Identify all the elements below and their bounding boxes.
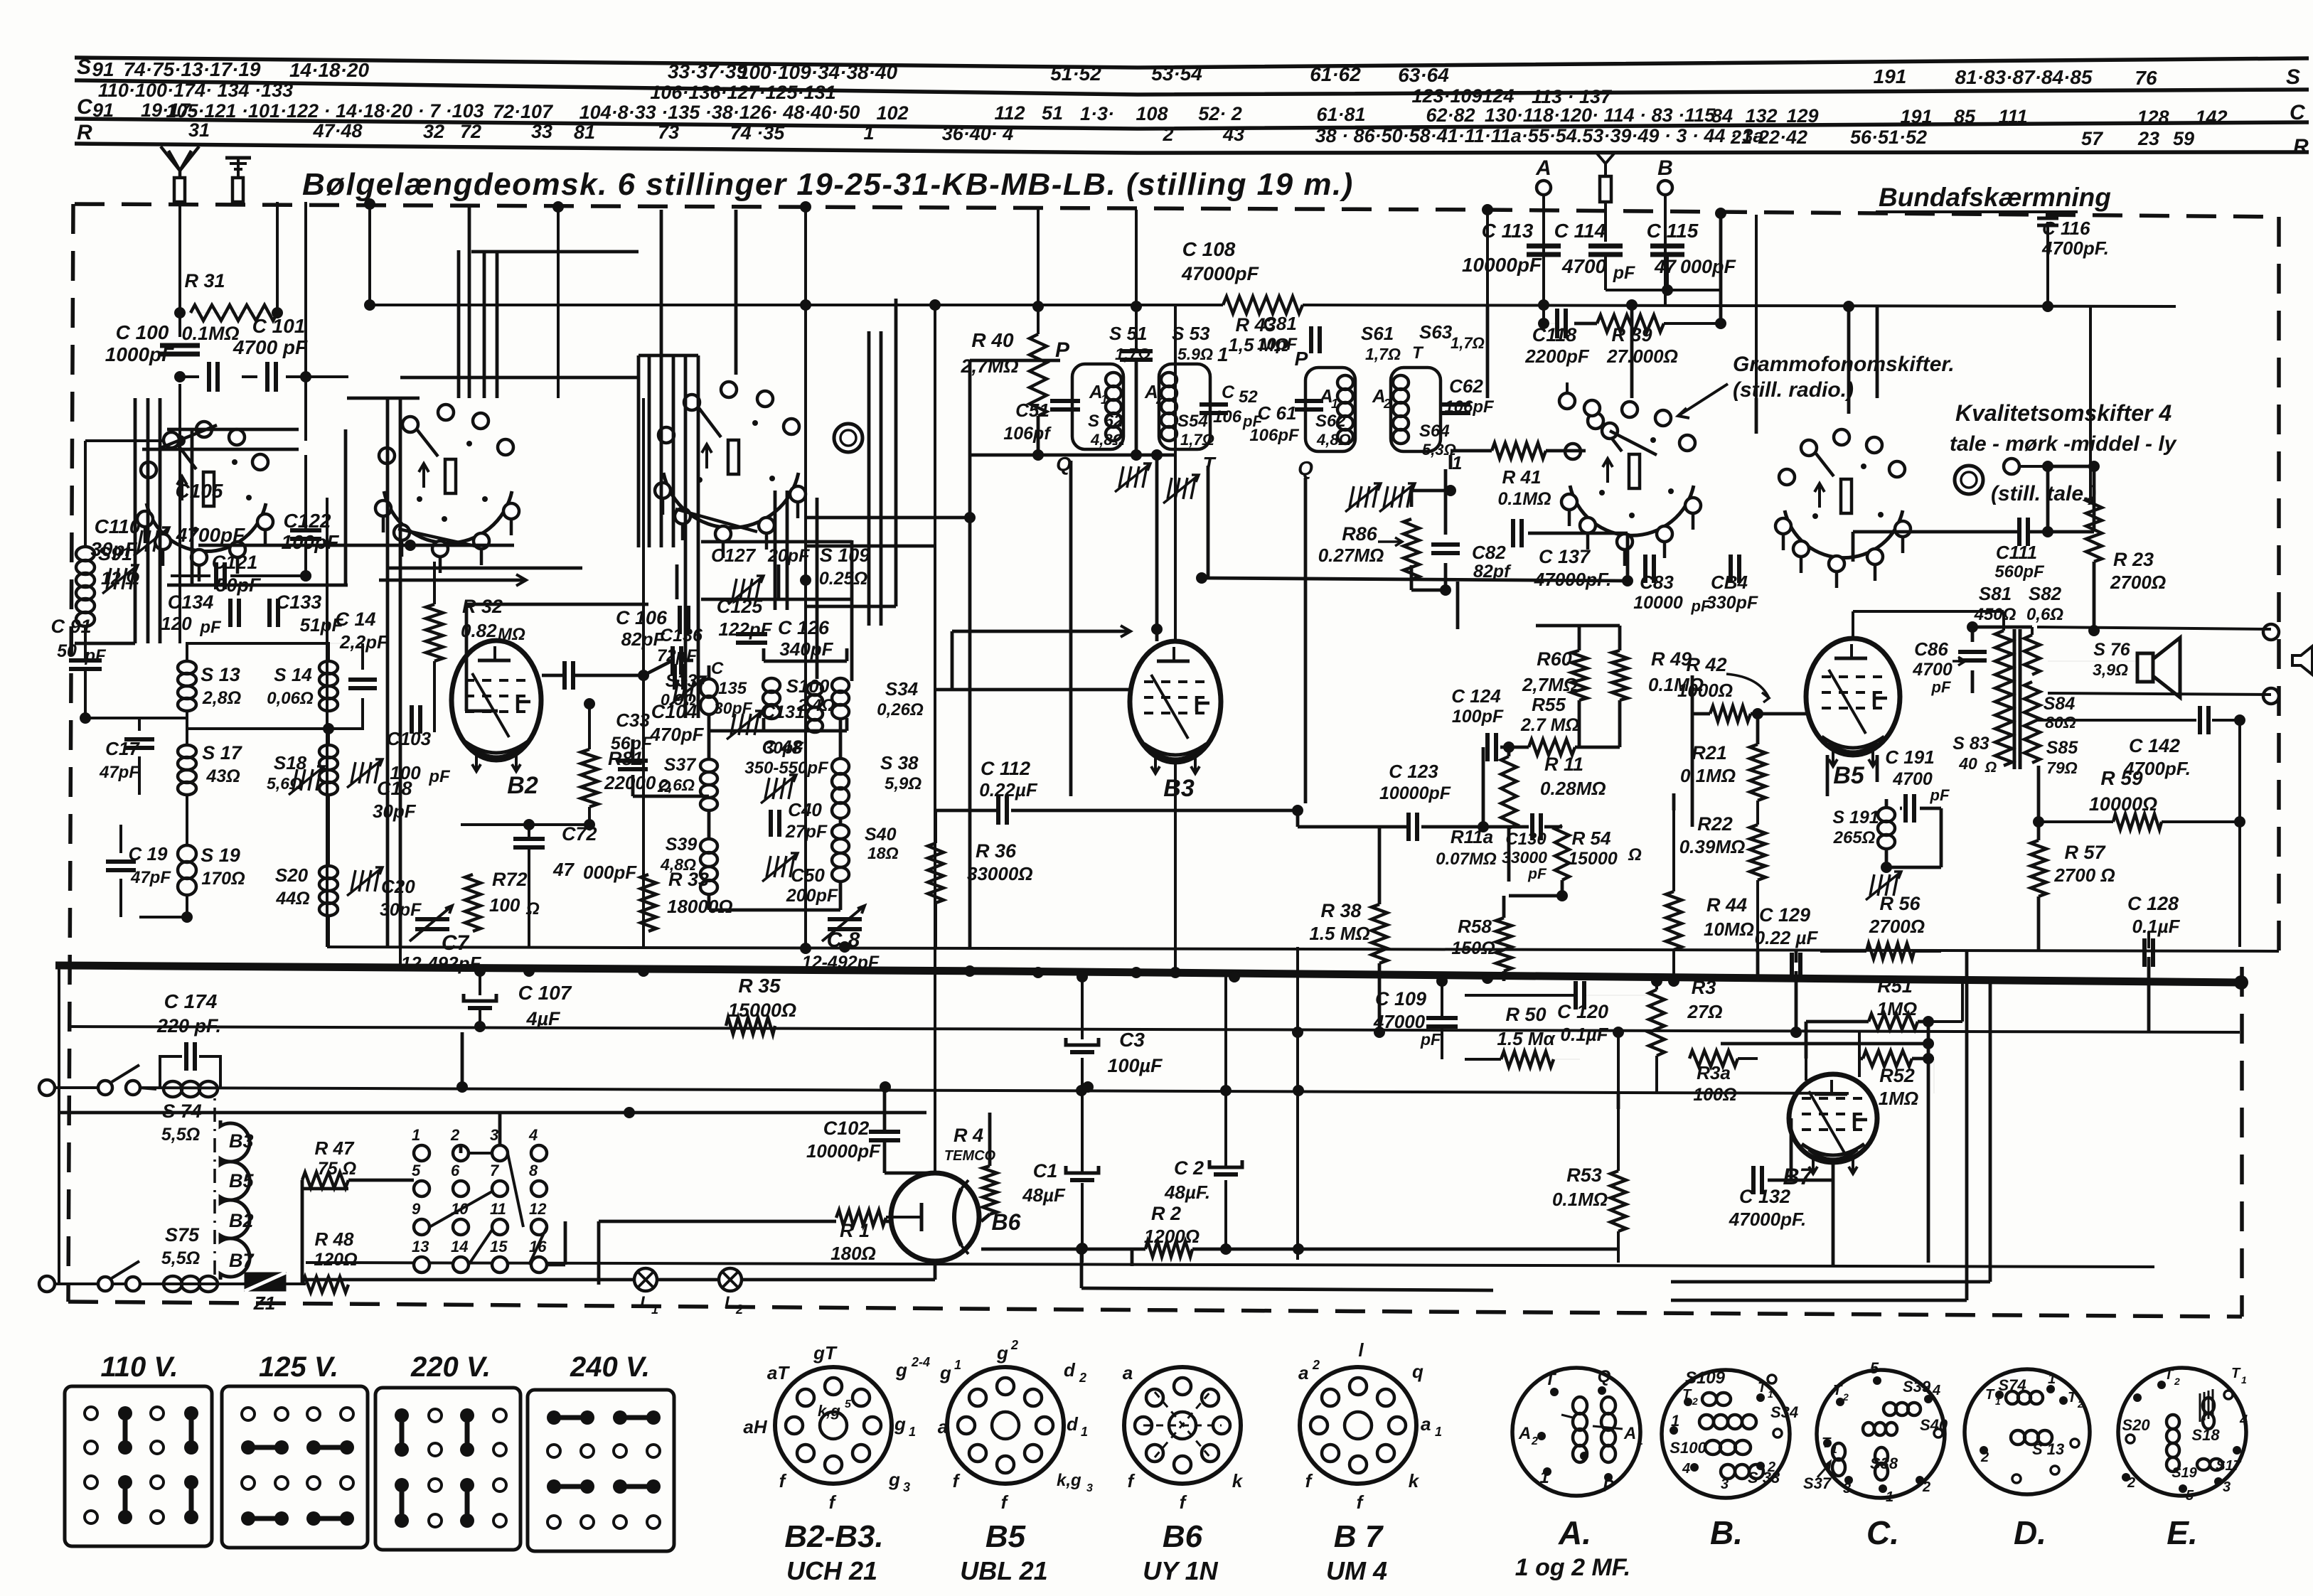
output terminal 2 [2263,688,2279,704]
svg-text:T: T [1545,1370,1557,1389]
arrow R86 [1378,540,1402,543]
svg-text:000pF: 000pF [583,862,637,883]
svg-text:B2: B2 [507,772,538,799]
wire C72 [528,825,530,837]
svg-text:S 13: S 13 [2032,1440,2064,1458]
svg-text:1: 1 [1452,452,1462,473]
wire R56 line [1820,950,1866,953]
svg-text:10pF: 10pF [1257,335,1298,354]
junction dots mid [405,540,416,551]
svg-text:0.39MΩ: 0.39MΩ [1679,836,1746,857]
svg-text:27pF: 27pF [785,822,828,842]
ecap C1 [1066,1166,1099,1173]
svg-text:240 V.: 240 V. [570,1351,650,1383]
svg-text:72: 72 [460,121,481,142]
svg-text:C72: C72 [562,823,597,845]
svg-text:R 40: R 40 [971,329,1014,351]
svg-text:125 V.: 125 V. [259,1351,338,1383]
svg-text:A: A [1518,1424,1531,1443]
svg-text:1: 1 [1832,1444,1837,1455]
svg-text:C102: C102 [823,1118,870,1139]
svg-text:S37: S37 [664,755,697,775]
capacitor C84 [1729,555,1733,583]
svg-text:T: T [2068,1390,2078,1405]
capacitor C115 [1650,244,1684,249]
coil S74 [164,1081,182,1097]
capacitor C112 [996,796,1000,825]
wire C123 row [1298,825,1409,829]
svg-text:C51: C51 [1015,400,1049,421]
svg-text:C 48: C 48 [762,737,802,758]
svg-text:14: 14 [451,1238,468,1255]
svg-text:C 114: C 114 [1554,220,1606,242]
svg-text:k: k [1409,1470,1420,1491]
svg-text:S19: S19 [2172,1465,2197,1481]
svg-text:Ω: Ω [1628,845,1642,864]
coil S19 [178,845,196,862]
svg-text:1,7Ω: 1,7Ω [1451,334,1485,352]
svg-text:108: 108 [1136,103,1168,124]
wire wafer B top [347,397,420,400]
svg-text:R53: R53 [1566,1164,1602,1186]
svg-text:72pF: 72pF [657,646,698,665]
coil S91 [76,547,95,561]
svg-text:1.5 MΩ: 1.5 MΩ [1309,923,1369,944]
svg-text:61·62: 61·62 [1310,63,1361,85]
svg-text:UCH 21: UCH 21 [786,1556,877,1585]
svg-text:124: 124 [1482,85,1514,107]
svg-text:2: 2 [2077,1398,2083,1410]
wire v2330 [1655,981,1658,990]
svg-text:pF: pF [1931,678,1951,696]
svg-text:C 2: C 2 [1174,1157,1204,1179]
svg-text:T: T [2164,1367,2174,1383]
capacitor C124 [1485,733,1490,761]
capacitor C108 [1120,349,1153,353]
svg-text:UM 4: UM 4 [1326,1556,1387,1585]
capacitor C123 [1406,813,1411,841]
IF can S61 box [1305,368,1355,451]
svg-text:P: P [1295,348,1308,370]
antenna [178,169,182,178]
wire C137 right [1528,532,1628,535]
svg-text:1·3·: 1·3· [1080,103,1114,124]
svg-text:76: 76 [2135,67,2157,89]
svg-text:B2-B3.: B2-B3. [784,1519,883,1554]
wire v2940 [2089,306,2092,498]
svg-text:B7: B7 [229,1250,255,1271]
svg-text:S: S [2286,65,2300,89]
ecap C2 [1209,1160,1242,1167]
svg-text:2: 2 [1842,1391,1849,1403]
earth terminal [233,178,243,202]
wire C118 left [1542,305,1545,323]
svg-text:C62: C62 [1449,375,1483,397]
rotary switch wafer E group [1785,510,1903,558]
svg-text:2,7MΩ: 2,7MΩ [1522,674,1578,695]
coil S18 [319,745,338,758]
svg-text:T: T [1682,1387,1692,1403]
wire C128 v [2147,931,2150,948]
svg-text:T: T [1202,453,1217,475]
svg-text:40: 40 [1958,754,1977,773]
mains terminal 1 [39,1080,55,1096]
socket B6 dashes [1143,1425,1222,1427]
svg-text:200pF: 200pF [786,886,838,906]
svg-text:R 4: R 4 [953,1125,983,1146]
svg-text:33·37·39: 33·37·39 [668,60,748,82]
svg-text:0,9Ω: 0,9Ω [661,690,696,709]
svg-text:0.1MΩ: 0.1MΩ [181,323,239,344]
svg-text:C81: C81 [1263,313,1297,334]
svg-text:R 35: R 35 [738,975,781,997]
svg-text:T: T [1412,343,1424,363]
resistor R72 [465,874,481,931]
wire v2354 [1672,810,1675,891]
svg-text:Bundafskærmning: Bundafskærmning [1879,183,2111,212]
lamp L2 [719,1268,742,1291]
svg-text:31: 31 [188,119,210,141]
wire R42 up [1691,675,1694,714]
svg-text:2: 2 [1922,1479,1930,1495]
wire B6 out [981,1248,1145,1251]
svg-text:S20: S20 [275,864,309,886]
svg-text:2: 2 [2127,1475,2135,1491]
svg-text:C86: C86 [1914,638,1948,660]
MF C internals [1873,1376,1881,1385]
wire R31 right [276,202,279,313]
trimmer C48 [765,778,769,799]
capacitor C109 [1426,1016,1458,1020]
variable capacitor C7 [415,917,449,921]
wire B7 bottom area [1832,1162,1835,1180]
svg-text:C 116: C 116 [2042,218,2090,239]
svg-text:85: 85 [1954,106,1976,127]
tank box S13 [187,643,328,661]
wire v2092 [1486,210,1489,305]
svg-text:k,g: k,g [818,1402,840,1420]
wire R51 join [1918,1020,1962,1023]
svg-text:R3a: R3a [1697,1062,1731,1083]
svg-text:2: 2 [1767,1460,1775,1475]
svg-text:R 59: R 59 [2100,767,2143,789]
svg-text:72·107: 72·107 [493,101,554,122]
wire wafer E up [1847,306,1851,414]
resistor R40 [1030,334,1047,416]
svg-text:120: 120 [161,613,192,634]
svg-text:C 129: C 129 [1759,904,1810,926]
antenna terminal [174,178,185,202]
svg-text:S 51: S 51 [1109,323,1148,344]
capacitor C128 [2142,938,2147,967]
svg-text:1: 1 [1539,1468,1549,1487]
svg-text:81: 81 [574,122,595,143]
svg-text:1: 1 [863,122,874,144]
svg-text:S63: S63 [1419,321,1453,343]
wire v905 [642,398,645,947]
svg-text:1,7Ω: 1,7Ω [1180,431,1214,449]
svg-text:S39: S39 [666,835,698,855]
svg-text:22000: 22000 [604,772,656,793]
svg-text:pF: pF [428,767,451,786]
svg-text:1: 1 [412,1126,420,1144]
svg-text:S81: S81 [1979,583,2012,604]
wire y640 line [970,454,1175,457]
arrow R42 [1726,674,1769,698]
svg-text:2700 Ω: 2700 Ω [2053,864,2115,886]
svg-text:106pf: 106pf [1003,424,1052,444]
svg-text:14·18·20: 14·18·20 [289,59,370,81]
wafer C ring [834,424,862,452]
MF circle B [1662,1370,1790,1498]
svg-text:51: 51 [1042,102,1063,124]
resistor R52 [1863,1051,1912,1066]
svg-text:1: 1 [1886,1489,1893,1505]
dashed border top [75,204,2279,217]
wire top horizontal right [1303,305,2176,306]
svg-text:33: 33 [531,121,552,142]
tank box S13 bottom [187,698,363,729]
svg-text:2: 2 [1980,1450,1989,1465]
wire R21 chain [1756,711,1760,744]
svg-text:P: P [1055,338,1070,362]
svg-text:S85: S85 [2046,738,2079,758]
svg-text:1: 1 [1081,1425,1088,1439]
wire v1133 [804,207,807,947]
wire bottom long [306,1263,2154,1267]
wire v520 [368,204,371,305]
svg-text:2700Ω: 2700Ω [1869,916,1925,937]
coil S51 [1106,373,1121,387]
svg-text:S 14: S 14 [274,664,312,685]
resistor R23 [2086,498,2102,562]
wire horiz y853 [806,605,896,609]
lamp L1 [634,1268,657,1291]
svg-text:tale - mørk -middel - ly: tale - mørk -middel - ly [1950,432,2177,456]
capacitor C104 [562,661,567,690]
svg-text:62·82: 62·82 [1426,105,1475,126]
capacitor C33 [618,759,648,763]
svg-text:Q: Q [1598,1367,1611,1386]
svg-text:4700 pF: 4700 pF [233,336,308,358]
wire horiz left block [167,428,299,432]
wire mains bottom [47,1282,306,1285]
mains terminal 2 [39,1276,55,1292]
coil S100 [763,678,780,692]
svg-text:1000pF: 1000pF [105,343,174,365]
socket B2-B3 [775,1367,892,1484]
variable capacitor C8 [828,917,862,921]
resistor R57 [2031,840,2046,896]
svg-text:B 7: B 7 [1334,1519,1384,1554]
wire vert waferC [774,491,777,610]
svg-text:1: 1 [1995,1396,2001,1407]
svg-text:4: 4 [528,1126,538,1144]
rotary switch wafer D group [1570,486,1694,535]
wire R35 line [68,1027,2240,1032]
svg-text:84: 84 [1711,105,1733,127]
svg-text:C 101: C 101 [252,315,306,337]
svg-text:102: 102 [876,102,908,124]
svg-text:S40: S40 [1920,1416,1948,1434]
MF A internals [1550,1388,1559,1396]
wire R44 C129 [1672,793,1676,810]
voltage selector 125V [222,1386,368,1548]
svg-text:100pF: 100pF [282,531,340,553]
svg-text:30pF: 30pF [714,699,753,717]
svg-text:S18: S18 [2191,1426,2220,1444]
svg-text:C 107: C 107 [518,982,572,1004]
svg-text:C1: C1 [1033,1160,1058,1182]
svg-text:150Ω: 150Ω [1451,938,1495,958]
svg-text:1: 1 [1671,1412,1679,1430]
trimmer C131 [731,714,735,735]
svg-text:74·75·13·17·19: 74·75·13·17·19 [123,58,260,80]
svg-text:4,8Ω: 4,8Ω [660,855,696,874]
svg-text:9: 9 [412,1200,421,1218]
svg-text:3: 3 [1843,1481,1851,1496]
svg-text:C 128: C 128 [2127,893,2179,914]
svg-text:43Ω: 43Ω [205,766,240,786]
wire R86 C82 [1410,491,1414,507]
capacitor C111 [2017,518,2021,546]
wire R32 [433,562,436,604]
wire v1653a [1174,305,1177,640]
svg-text:A.: A. [1558,1514,1591,1551]
wire R81 [588,704,591,749]
svg-text:18Ω: 18Ω [867,844,899,862]
wire v2470 [1755,215,1758,398]
capacitor C120 [1574,981,1578,1009]
svg-text:220 V.: 220 V. [410,1351,491,1383]
thin bus line [327,947,2279,951]
junction dots top [364,299,375,311]
svg-text:a: a [1421,1413,1431,1435]
resistor R1 [836,1210,886,1226]
rotary switch wafer S91 group [146,503,266,552]
wire v1653b [1174,762,1177,968]
wire R60 R49 tops [1578,626,1581,650]
capacitor C81 [1309,326,1313,353]
capacitor C125 [678,606,682,634]
capacitor C103 [410,705,414,734]
svg-text:106·136·127·125·131: 106·136·127·125·131 [650,82,835,103]
MF circle E [2118,1368,2246,1496]
svg-text:(still. tale.): (still. tale.) [1991,482,2096,505]
svg-text:0,26Ω: 0,26Ω [877,700,924,719]
svg-text:23: 23 [2137,128,2159,149]
coil S100b [832,678,849,692]
svg-text:C.: C. [1866,1514,1899,1551]
wire C100 node [178,311,181,314]
wire R58 bottom [1502,896,1506,918]
svg-text:S33: S33 [666,671,698,691]
svg-text:L: L [725,1293,735,1312]
wire C105 left [180,375,199,378]
svg-text:P: P [1603,1477,1615,1496]
IF can S53 box [1159,364,1210,449]
wire C101 bus [242,375,257,378]
svg-text:48µF.: 48µF. [1164,1182,1210,1203]
transformer secondary bottom [2024,682,2040,763]
svg-text:12-492pF: 12-492pF [401,953,482,974]
wire C108 [1135,210,1138,350]
svg-text:47pF: 47pF [130,868,171,887]
contact field 1-16 [414,1145,429,1161]
svg-text:44Ω: 44Ω [275,889,309,909]
svg-text:C17: C17 [105,738,140,759]
heater chain B3 B5 B2 B7 [220,1120,250,1280]
wire vert left bundle [134,398,137,643]
svg-text:C 142: C 142 [2129,735,2180,756]
wire vert mid bundle [637,355,641,547]
ecap C107 [464,994,496,1001]
wire B5 bottom [1826,755,1829,796]
wire Q drop [1069,461,1073,796]
svg-text:350-550pF: 350-550pF [744,759,829,778]
svg-text:470pF: 470pF [649,724,704,745]
svg-text:1: 1 [1637,1435,1643,1447]
svg-text:T: T [1758,1380,1768,1396]
svg-text:Ω: Ω [525,899,540,918]
svg-text:R 32: R 32 [462,596,503,617]
svg-text:C 137: C 137 [1539,546,1591,567]
resistor R60 [1571,650,1587,700]
capacitor C129 [1790,953,1794,981]
svg-text:5: 5 [1870,1359,1879,1377]
wire v1522 [1081,977,1084,1039]
MF circle D [1965,1369,2090,1494]
svg-text:R 48: R 48 [315,1228,354,1250]
svg-text:3: 3 [490,1126,498,1144]
svg-text:1: 1 [1768,1388,1773,1400]
speaker S76 [2137,653,2153,682]
wire y813 long [1203,578,1628,581]
svg-text:100Ω: 100Ω [1693,1085,1736,1105]
svg-text:36·40· 4: 36·40· 4 [942,123,1014,144]
capacitor C136 [673,664,677,690]
svg-text:1,7Ω: 1,7Ω [1115,345,1150,363]
coil S13 [178,661,196,674]
trimmer S91 [107,568,111,589]
svg-text:1,7Ω: 1,7Ω [1365,345,1401,363]
coil S17 [178,745,196,758]
svg-text:T: T [1833,1383,1843,1398]
wafer B rotor [398,529,475,546]
svg-text:330pF: 330pF [1706,593,1758,613]
svg-text:4700: 4700 [1561,255,1607,277]
tube B3 [1130,641,1221,762]
svg-text:C: C [2290,101,2306,124]
capacitor C125b [736,632,767,636]
svg-text:132: 132 [1745,105,1777,127]
svg-text:C 126: C 126 [778,617,830,638]
svg-text:1: 1 [909,1425,916,1439]
wire B2 input box [465,604,469,711]
wire right top block [1486,305,1490,398]
resistor R35 [726,1017,775,1034]
wire tank rails mid [764,660,847,663]
svg-text:CB4: CB4 [1711,572,1748,593]
svg-text:52· 2: 52· 2 [1198,103,1242,124]
wire v650 [461,1032,464,1087]
transformer primary [1995,631,2012,766]
svg-text:2.7 MΩ: 2.7 MΩ [1520,715,1579,735]
svg-text:10000pF: 10000pF [1379,783,1451,803]
wafer A rotor [161,425,217,448]
resistor R53 [1610,1171,1626,1231]
svg-text:2: 2 [1383,397,1391,411]
